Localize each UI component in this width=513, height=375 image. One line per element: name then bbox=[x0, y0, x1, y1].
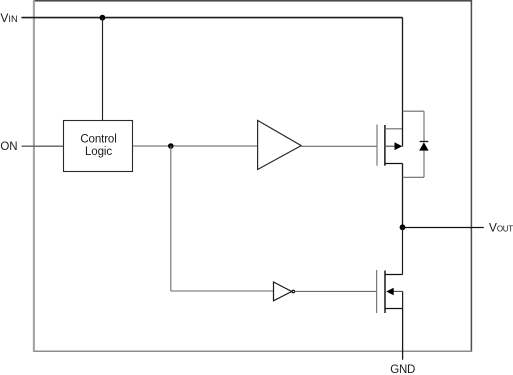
transistor Q1 pass FET bbox=[377, 125, 403, 166]
svg-text:VIN: VIN bbox=[0, 11, 17, 25]
svg-text:Control: Control bbox=[80, 134, 116, 146]
Q2 body arrow bbox=[386, 288, 394, 296]
wire Q1 source down to VOUT node bbox=[402, 164, 404, 228]
wire to inverter input bbox=[171, 290, 274, 292]
svg-text:VOUT: VOUT bbox=[489, 221, 513, 235]
pin label VOUT bbox=[489, 221, 513, 235]
node VOUT junction bbox=[400, 224, 406, 230]
node junction on VIN rail bbox=[100, 15, 106, 21]
wire junction down branch bbox=[170, 146, 172, 291]
wire VOUT node down to Q2 drain bbox=[402, 227, 404, 274]
wire Q2 body tie to source bbox=[402, 291, 404, 308]
wire VOUT output bbox=[403, 227, 484, 229]
wire control logic output bbox=[133, 145, 258, 147]
wire Q2 source to GND pin bbox=[402, 309, 404, 360]
wire VIN rail down to Q1 drain bbox=[402, 18, 404, 147]
svg-text:ON: ON bbox=[0, 141, 17, 153]
wire inverter output to Q2 gate bbox=[295, 290, 377, 292]
pin label GND bbox=[390, 364, 415, 375]
diode D1 symbol bbox=[419, 142, 428, 151]
inverter bubble bbox=[292, 290, 295, 293]
Q1 body arrow bbox=[395, 142, 403, 150]
pin label VIN bbox=[0, 11, 17, 25]
control logic block bbox=[64, 121, 133, 172]
wire ON input bbox=[22, 145, 64, 147]
pin label ON bbox=[0, 141, 17, 153]
inverter U2 bbox=[274, 282, 292, 301]
wire VIN rail bbox=[22, 17, 403, 19]
transistor Q2 discharge FET bbox=[377, 270, 403, 313]
node junction after control logic bbox=[168, 143, 174, 149]
body diode D1 loop bbox=[403, 111, 425, 177]
wire VIN to control logic bbox=[102, 18, 104, 121]
wire buffer output to Q1 gate bbox=[301, 145, 377, 147]
svg-text:Logic: Logic bbox=[85, 146, 112, 158]
buffer driver U1 bbox=[258, 120, 302, 169]
svg-text:GND: GND bbox=[390, 364, 415, 375]
